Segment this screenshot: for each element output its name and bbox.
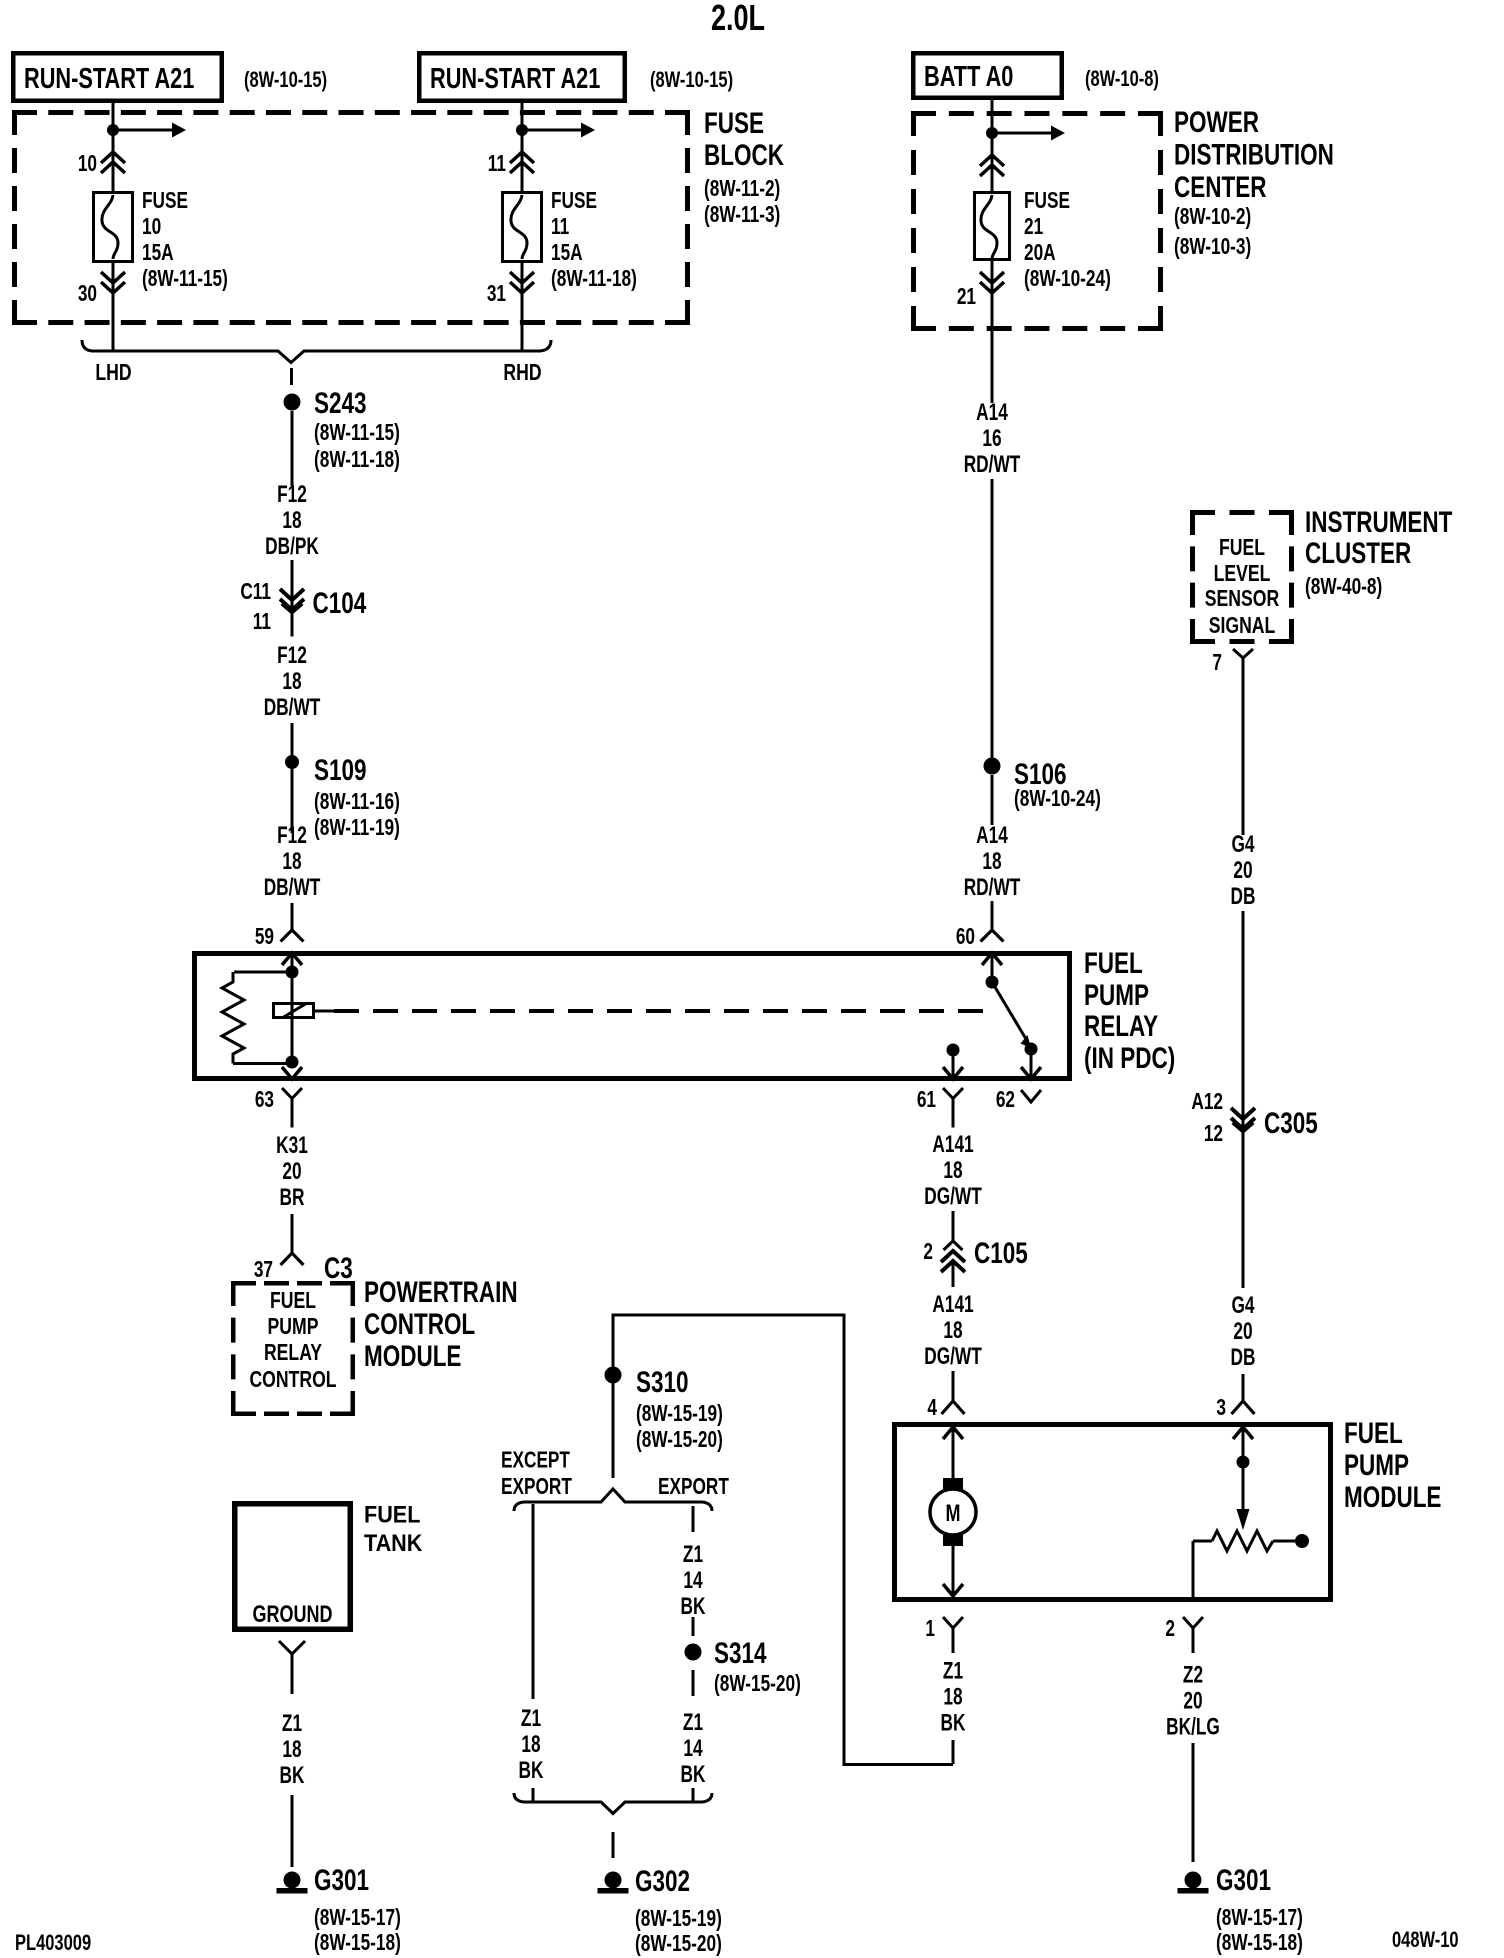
svg-text:LEVEL: LEVEL <box>1214 561 1271 587</box>
svg-text:FUSE: FUSE <box>704 106 764 140</box>
svg-text:37: 37 <box>254 1258 273 1283</box>
svg-text:59: 59 <box>255 925 274 950</box>
svg-text:DB/WT: DB/WT <box>264 874 321 900</box>
svg-text:(IN PDC): (IN PDC) <box>1084 1041 1175 1075</box>
svg-text:FUEL: FUEL <box>1344 1416 1403 1450</box>
svg-text:BK: BK <box>681 1593 706 1619</box>
svg-text:BK: BK <box>681 1761 706 1787</box>
svg-text:INSTRUMENT: INSTRUMENT <box>1305 505 1452 539</box>
svg-text:SENSOR: SENSOR <box>1205 586 1279 612</box>
svg-text:20: 20 <box>282 1158 301 1184</box>
svg-text:S109: S109 <box>314 753 367 787</box>
svg-text:EXPORT: EXPORT <box>501 1475 572 1500</box>
svg-text:A141: A141 <box>932 1131 974 1157</box>
svg-text:PUMP: PUMP <box>1344 1448 1409 1482</box>
svg-text:4: 4 <box>927 1396 937 1421</box>
svg-text:(8W-11-15): (8W-11-15) <box>314 421 400 446</box>
svg-text:18: 18 <box>943 1317 962 1343</box>
svg-text:CONTROL: CONTROL <box>249 1367 336 1393</box>
svg-text:(8W-11-18): (8W-11-18) <box>314 448 400 473</box>
svg-text:FUSE: FUSE <box>142 189 188 214</box>
svg-text:15A: 15A <box>142 241 174 266</box>
svg-text:RUN-START A21: RUN-START A21 <box>24 63 194 95</box>
svg-text:CLUSTER: CLUSTER <box>1305 536 1411 570</box>
svg-text:GROUND: GROUND <box>253 1602 333 1628</box>
svg-text:BK/LG: BK/LG <box>1166 1714 1220 1740</box>
svg-text:18: 18 <box>521 1731 540 1757</box>
svg-text:(8W-15-17): (8W-15-17) <box>314 1906 401 1931</box>
svg-text:(8W-15-18): (8W-15-18) <box>1216 1931 1303 1956</box>
svg-text:CONTROL: CONTROL <box>364 1307 475 1341</box>
svg-text:(8W-11-15): (8W-11-15) <box>142 267 228 292</box>
svg-text:S310: S310 <box>636 1365 689 1399</box>
svg-text:(8W-10-15): (8W-10-15) <box>650 68 733 93</box>
svg-text:PL403009: PL403009 <box>15 1931 91 1956</box>
svg-text:11: 11 <box>253 610 271 635</box>
svg-text:(8W-10-24): (8W-10-24) <box>1024 267 1111 292</box>
svg-text:A14: A14 <box>976 399 1008 425</box>
svg-text:15A: 15A <box>551 241 583 266</box>
svg-text:Z1: Z1 <box>521 1705 541 1731</box>
svg-text:7: 7 <box>1212 651 1222 676</box>
svg-text:2: 2 <box>923 1240 933 1265</box>
svg-text:3: 3 <box>1216 1396 1226 1421</box>
svg-text:18: 18 <box>943 1684 962 1710</box>
svg-text:61: 61 <box>917 1088 936 1113</box>
svg-text:(8W-15-18): (8W-15-18) <box>314 1931 401 1956</box>
svg-text:G4: G4 <box>1231 831 1254 857</box>
svg-text:BK: BK <box>280 1762 305 1788</box>
svg-text:(8W-15-19): (8W-15-19) <box>635 1907 722 1932</box>
svg-text:Z1: Z1 <box>683 1541 703 1567</box>
svg-text:20: 20 <box>1183 1688 1202 1714</box>
svg-text:G302: G302 <box>635 1864 690 1898</box>
svg-text:POWER: POWER <box>1174 105 1259 139</box>
svg-text:11: 11 <box>488 152 506 177</box>
svg-text:TANK: TANK <box>364 1529 423 1556</box>
svg-text:11: 11 <box>551 215 569 240</box>
svg-text:RHD: RHD <box>503 360 541 386</box>
svg-text:G301: G301 <box>314 1863 369 1897</box>
svg-text:30: 30 <box>78 282 97 307</box>
svg-text:Z1: Z1 <box>683 1709 703 1735</box>
svg-text:(8W-15-19): (8W-15-19) <box>636 1402 723 1427</box>
svg-text:2.0L: 2.0L <box>711 0 765 38</box>
svg-text:C11: C11 <box>240 580 271 605</box>
svg-text:20: 20 <box>1233 1318 1252 1344</box>
svg-text:18: 18 <box>943 1157 962 1183</box>
svg-text:C305: C305 <box>1264 1106 1318 1140</box>
svg-text:16: 16 <box>982 425 1001 451</box>
svg-text:BK: BK <box>519 1757 544 1783</box>
svg-text:POWERTRAIN: POWERTRAIN <box>364 1275 518 1309</box>
svg-text:18: 18 <box>282 848 301 874</box>
svg-text:1: 1 <box>925 1617 935 1642</box>
svg-text:(8W-11-18): (8W-11-18) <box>551 267 637 292</box>
svg-text:(8W-15-20): (8W-15-20) <box>636 1428 723 1453</box>
svg-text:60: 60 <box>956 925 975 950</box>
svg-text:Z1: Z1 <box>943 1658 963 1684</box>
svg-text:10: 10 <box>78 152 97 177</box>
svg-text:S314: S314 <box>714 1636 767 1670</box>
svg-text:FUEL: FUEL <box>364 1500 420 1527</box>
svg-text:MODULE: MODULE <box>364 1339 461 1373</box>
svg-text:2: 2 <box>1165 1617 1175 1642</box>
svg-text:DG/WT: DG/WT <box>924 1183 982 1209</box>
svg-text:DISTRIBUTION: DISTRIBUTION <box>1174 137 1334 171</box>
svg-text:SIGNAL: SIGNAL <box>1209 613 1276 639</box>
svg-text:(8W-10-3): (8W-10-3) <box>1174 235 1251 260</box>
svg-text:(8W-15-20): (8W-15-20) <box>714 1672 801 1697</box>
svg-text:20: 20 <box>1233 857 1252 883</box>
svg-text:K31: K31 <box>276 1132 308 1158</box>
svg-text:PUMP: PUMP <box>1084 978 1149 1012</box>
svg-text:S243: S243 <box>314 386 367 420</box>
svg-text:A141: A141 <box>932 1291 974 1317</box>
svg-text:BATT A0: BATT A0 <box>924 61 1013 93</box>
svg-text:BLOCK: BLOCK <box>704 138 784 172</box>
svg-text:DB: DB <box>1231 883 1256 909</box>
svg-text:12: 12 <box>1204 1122 1223 1147</box>
svg-text:(8W-10-24): (8W-10-24) <box>1014 787 1101 812</box>
svg-text:FUEL: FUEL <box>1084 946 1143 980</box>
svg-text:10: 10 <box>142 215 161 240</box>
svg-text:C3: C3 <box>324 1251 353 1285</box>
svg-text:BK: BK <box>941 1710 966 1736</box>
svg-text:(8W-40-8): (8W-40-8) <box>1305 575 1382 600</box>
svg-text:C105: C105 <box>974 1236 1028 1270</box>
svg-text:DB/PK: DB/PK <box>265 533 319 559</box>
svg-text:FUSE: FUSE <box>551 189 597 214</box>
svg-text:(8W-10-2): (8W-10-2) <box>1174 205 1251 230</box>
svg-text:G4: G4 <box>1231 1292 1254 1318</box>
svg-text:A12: A12 <box>1191 1090 1223 1115</box>
svg-text:EXPORT: EXPORT <box>658 1475 729 1500</box>
svg-text:18: 18 <box>282 1736 301 1762</box>
svg-text:(8W-15-20): (8W-15-20) <box>635 1932 722 1957</box>
svg-text:(8W-11-16): (8W-11-16) <box>314 790 400 815</box>
svg-text:63: 63 <box>255 1088 274 1113</box>
svg-text:14: 14 <box>683 1735 703 1761</box>
svg-text:048W-10: 048W-10 <box>1392 1928 1459 1953</box>
svg-text:M: M <box>946 1501 961 1527</box>
svg-text:FUEL: FUEL <box>270 1288 316 1314</box>
svg-text:PUMP: PUMP <box>268 1314 319 1340</box>
svg-text:18: 18 <box>282 507 301 533</box>
svg-text:S106: S106 <box>1014 757 1067 791</box>
svg-text:DB: DB <box>1231 1344 1256 1370</box>
svg-text:BR: BR <box>280 1184 305 1210</box>
svg-text:FUSE: FUSE <box>1024 189 1070 214</box>
svg-text:62: 62 <box>996 1088 1015 1113</box>
svg-text:(8W-10-15): (8W-10-15) <box>244 68 327 93</box>
svg-text:RELAY: RELAY <box>1084 1009 1158 1043</box>
svg-text:G301: G301 <box>1216 1863 1271 1897</box>
svg-text:18: 18 <box>982 848 1001 874</box>
svg-text:21: 21 <box>957 285 976 310</box>
svg-text:18: 18 <box>282 668 301 694</box>
svg-text:(8W-11-19): (8W-11-19) <box>314 816 400 841</box>
svg-text:RD/WT: RD/WT <box>964 874 1021 900</box>
svg-text:Z2: Z2 <box>1183 1662 1203 1688</box>
svg-text:DB/WT: DB/WT <box>264 694 321 720</box>
svg-text:CENTER: CENTER <box>1174 170 1266 204</box>
svg-text:20A: 20A <box>1024 241 1056 266</box>
svg-text:A14: A14 <box>976 822 1008 848</box>
svg-text:21: 21 <box>1024 215 1043 240</box>
svg-text:DG/WT: DG/WT <box>924 1343 982 1369</box>
svg-text:MODULE: MODULE <box>1344 1480 1441 1514</box>
svg-text:(8W-10-8): (8W-10-8) <box>1085 67 1159 92</box>
svg-text:(8W-15-17): (8W-15-17) <box>1216 1906 1303 1931</box>
svg-text:EXCEPT: EXCEPT <box>501 1448 570 1473</box>
svg-text:(8W-11-2): (8W-11-2) <box>704 177 780 202</box>
svg-text:FUEL: FUEL <box>1219 535 1265 561</box>
svg-text:C104: C104 <box>313 586 367 620</box>
svg-text:(8W-11-3): (8W-11-3) <box>704 203 780 228</box>
svg-text:31: 31 <box>487 282 506 307</box>
svg-text:F12: F12 <box>277 642 307 668</box>
svg-text:RELAY: RELAY <box>264 1340 322 1366</box>
svg-text:RUN-START A21: RUN-START A21 <box>430 63 600 95</box>
svg-text:LHD: LHD <box>95 360 131 386</box>
svg-text:14: 14 <box>683 1567 703 1593</box>
svg-text:Z1: Z1 <box>282 1710 302 1736</box>
svg-text:RD/WT: RD/WT <box>964 451 1021 477</box>
